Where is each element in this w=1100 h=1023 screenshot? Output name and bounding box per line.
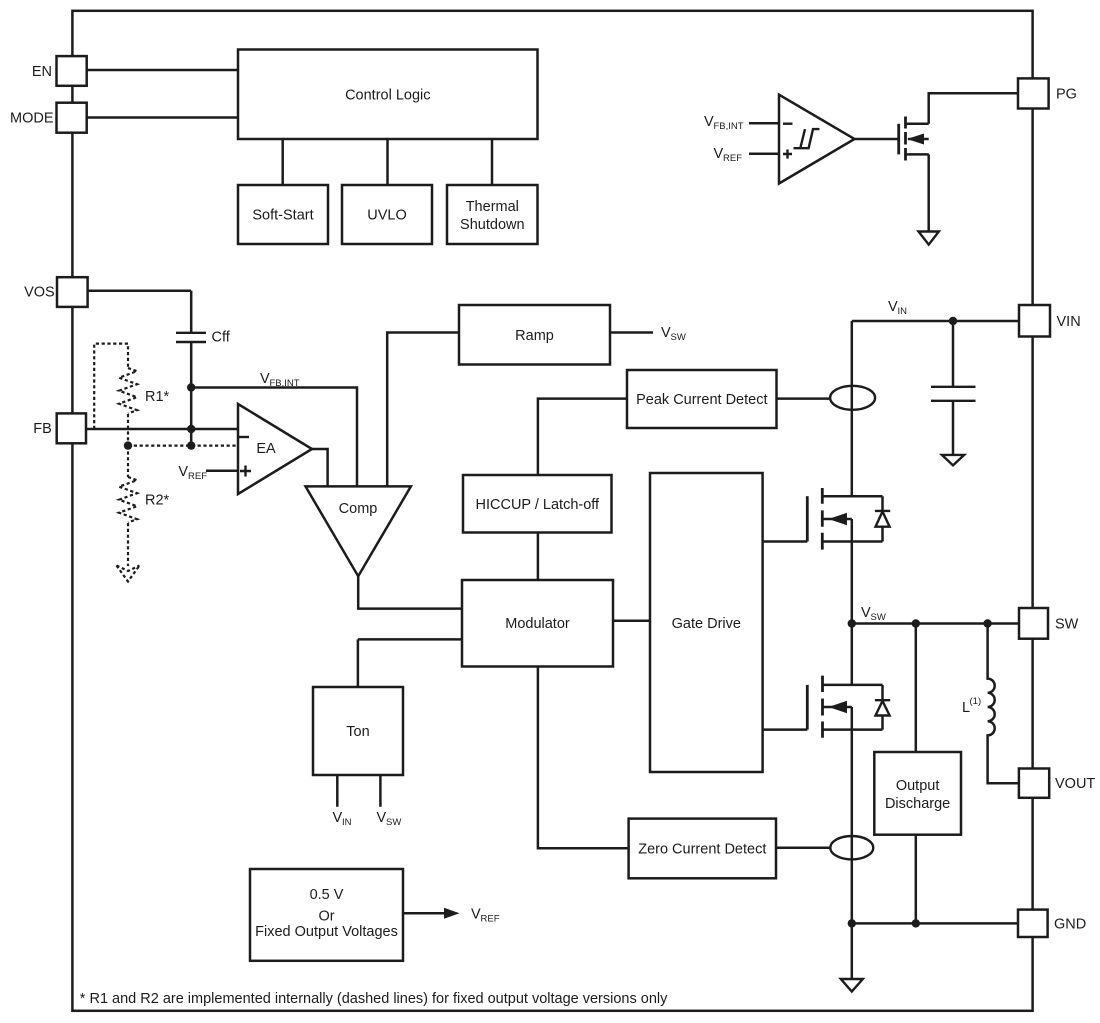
svg-text:IN: IN [898, 306, 908, 317]
svg-text:Control Logic: Control Logic [345, 88, 430, 104]
svg-text:FB: FB [33, 421, 52, 437]
svg-text:SW: SW [671, 332, 686, 343]
svg-text:REF: REF [188, 471, 207, 482]
svg-text:V: V [333, 810, 343, 826]
svg-text:VIN: VIN [1057, 314, 1081, 330]
svg-text:HICCUP / Latch-off: HICCUP / Latch-off [476, 497, 601, 513]
svg-text:REF: REF [723, 153, 742, 164]
svg-text:UVLO: UVLO [367, 208, 407, 224]
svg-text:Ramp: Ramp [515, 328, 554, 344]
svg-text:Ton: Ton [346, 724, 369, 740]
svg-text:V: V [861, 605, 871, 621]
svg-text:Or: Or [318, 909, 334, 925]
svg-text:SW: SW [1055, 617, 1079, 633]
svg-text:MODE: MODE [10, 111, 54, 127]
svg-text:V: V [471, 907, 481, 923]
svg-text:Discharge: Discharge [885, 796, 950, 812]
svg-text:Shutdown: Shutdown [460, 217, 525, 233]
svg-text:V: V [704, 114, 714, 130]
svg-text:Soft-Start: Soft-Start [252, 208, 313, 224]
svg-text:FB,INT: FB,INT [270, 378, 300, 389]
svg-text:V: V [377, 810, 387, 826]
svg-text:VOUT: VOUT [1055, 776, 1095, 792]
svg-text:REF: REF [481, 914, 500, 925]
svg-text:Cff: Cff [212, 330, 231, 346]
svg-text:V: V [661, 325, 671, 341]
svg-text:R1*: R1* [145, 389, 170, 405]
svg-text:Gate Drive: Gate Drive [672, 616, 741, 632]
svg-text:SW: SW [871, 612, 886, 623]
svg-text:EN: EN [32, 64, 52, 80]
svg-text:SW: SW [386, 817, 401, 828]
svg-text:Fixed Output Voltages: Fixed Output Voltages [255, 924, 398, 940]
svg-text:V: V [178, 464, 188, 480]
svg-text:Zero Current Detect: Zero Current Detect [638, 842, 766, 858]
svg-text:EA: EA [256, 441, 276, 457]
svg-text:VOS: VOS [24, 285, 55, 301]
svg-text:0.5 V: 0.5 V [310, 887, 344, 903]
svg-text:GND: GND [1054, 917, 1086, 933]
svg-text:Thermal: Thermal [466, 199, 519, 215]
svg-text:Modulator: Modulator [505, 616, 570, 632]
svg-text:FB,INT: FB,INT [714, 121, 744, 132]
svg-text:Peak Current Detect: Peak Current Detect [636, 392, 767, 408]
svg-text:V: V [260, 371, 270, 387]
svg-text:IN: IN [342, 817, 352, 828]
svg-text:V: V [714, 146, 724, 162]
svg-text:(1): (1) [970, 696, 982, 707]
svg-text:V: V [888, 299, 898, 315]
svg-text:* R1 and R2 are implemented in: * R1 and R2 are implemented internally (… [80, 991, 668, 1007]
svg-text:Output: Output [896, 778, 940, 794]
svg-text:PG: PG [1056, 87, 1077, 103]
svg-text:R2*: R2* [145, 493, 170, 509]
svg-text:Comp: Comp [339, 501, 378, 517]
